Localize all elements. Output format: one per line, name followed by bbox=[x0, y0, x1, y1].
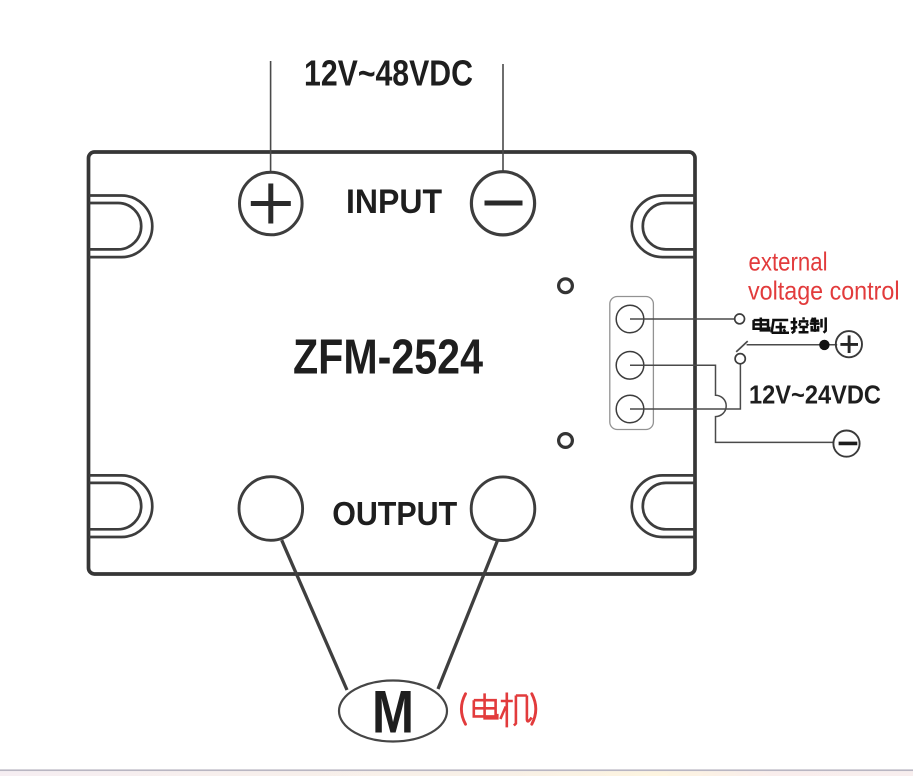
wire: pin1 to voltage-control node bbox=[630, 318, 735, 320]
page bottom tint strip bbox=[0, 771, 913, 776]
glyph 电 bbox=[474, 693, 498, 718]
glyph 制 bbox=[810, 317, 826, 332]
terminal screw input + bbox=[239, 172, 302, 235]
terminal screw output right bbox=[471, 477, 535, 541]
wire: output left to motor bbox=[282, 540, 347, 690]
motor M1 body bbox=[339, 681, 447, 742]
svg-text:OUTPUT: OUTPUT bbox=[332, 496, 457, 533]
label 12V~24VDC bbox=[749, 379, 881, 409]
label 12V~48VDC bbox=[304, 53, 473, 94]
wire: switch to junction dot bbox=[747, 344, 838, 346]
wire: pin3 to switch pole bbox=[630, 364, 740, 409]
external supply - terminal bbox=[833, 431, 859, 457]
wire: DC supply to input - bbox=[502, 64, 504, 171]
label OUTPUT bbox=[332, 496, 457, 533]
external supply + terminal bbox=[836, 331, 862, 357]
indicator hole top bbox=[559, 279, 573, 293]
glyph 机 bbox=[500, 693, 531, 728]
mounting slot bottom-left bbox=[89, 475, 152, 537]
mounting slot top-right bbox=[632, 196, 695, 258]
svg-text:M: M bbox=[372, 679, 414, 746]
junction dot bbox=[819, 340, 829, 350]
svg-text:external: external bbox=[749, 246, 828, 276]
svg-text:ZFM-2524: ZFM-2524 bbox=[293, 331, 483, 385]
wire: output right to motor bbox=[438, 541, 497, 689]
svg-text:12V~24VDC: 12V~24VDC bbox=[749, 379, 881, 409]
terminal screw input - bbox=[471, 172, 534, 235]
label 电压控制 (voltage control) bbox=[754, 317, 826, 333]
terminal pin 2 bbox=[616, 352, 644, 380]
terminal pin 3 bbox=[616, 395, 644, 423]
glyph 压 bbox=[772, 320, 789, 333]
wire: DC supply to input + bbox=[270, 61, 272, 172]
label (电机) motor (red) bbox=[461, 693, 535, 728]
wire: pin2 to external supply - (with hop) bbox=[630, 365, 833, 442]
terminal screw output left bbox=[239, 477, 303, 541]
paren ) bbox=[532, 694, 536, 724]
svg-text:INPUT: INPUT bbox=[346, 183, 442, 221]
page bottom divider line bbox=[0, 769, 913, 771]
motor label M bbox=[372, 679, 414, 746]
svg-text:voltage control: voltage control bbox=[748, 276, 900, 306]
switch S1 pole contact bbox=[735, 354, 745, 364]
switch S1 blade bbox=[736, 341, 748, 352]
paren ( bbox=[461, 694, 465, 724]
terminal block J1 bbox=[610, 297, 654, 430]
indicator hole bottom bbox=[559, 434, 573, 448]
label external voltage control (red) bbox=[748, 246, 900, 305]
mounting slot top-left bbox=[89, 196, 152, 258]
svg-text:12V~48VDC: 12V~48VDC bbox=[304, 53, 473, 94]
glyph 电 bbox=[754, 318, 770, 331]
label ZFM-2524 bbox=[293, 331, 483, 385]
node: voltage control open terminal bbox=[735, 314, 745, 324]
module body ZFM-2524 bbox=[89, 152, 696, 574]
mounting slot bottom-right bbox=[632, 475, 695, 537]
glyph 控 bbox=[791, 317, 809, 333]
label INPUT bbox=[346, 183, 442, 221]
terminal pin 1 bbox=[616, 305, 644, 333]
